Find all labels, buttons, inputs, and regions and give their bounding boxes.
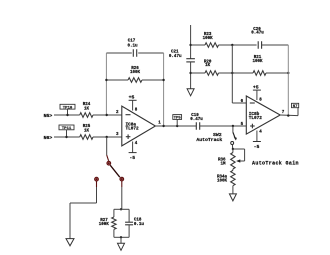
- svg-text:TL072: TL072: [249, 116, 263, 121]
- svg-text:AutoTrack: AutoTrack: [196, 137, 222, 143]
- svg-text:1K: 1K: [84, 107, 90, 111]
- svg-text:N5>: N5>: [44, 113, 53, 119]
- svg-text:+5: +5: [129, 94, 135, 100]
- svg-text:N7: N7: [293, 105, 298, 109]
- svg-text:100K: 100K: [217, 180, 228, 184]
- svg-text:0.47u: 0.47u: [190, 118, 203, 122]
- svg-text:-5: -5: [254, 144, 260, 150]
- svg-text:1M: 1M: [220, 162, 226, 166]
- svg-text:N6>: N6>: [44, 135, 53, 141]
- svg-text:+5: +5: [253, 84, 259, 90]
- svg-text:0.1u: 0.1u: [127, 44, 138, 48]
- svg-text:-5: -5: [129, 155, 135, 161]
- svg-text:100K: 100K: [99, 223, 110, 227]
- svg-text:100K: 100K: [252, 60, 263, 64]
- svg-text:0.47u: 0.47u: [169, 55, 182, 59]
- svg-text:1K: 1K: [205, 64, 211, 68]
- svg-text:AutoTrack Gain: AutoTrack Gain: [252, 160, 299, 166]
- svg-text:C17: C17: [128, 40, 136, 44]
- svg-text:C21: C21: [171, 50, 179, 54]
- svg-text:1K: 1K: [84, 129, 90, 133]
- svg-text:0.47u: 0.47u: [251, 32, 264, 36]
- svg-text:0.1u: 0.1u: [134, 223, 145, 227]
- svg-text:100K: 100K: [203, 37, 214, 41]
- svg-text:TL072: TL072: [126, 127, 140, 132]
- svg-text:100K: 100K: [130, 71, 141, 75]
